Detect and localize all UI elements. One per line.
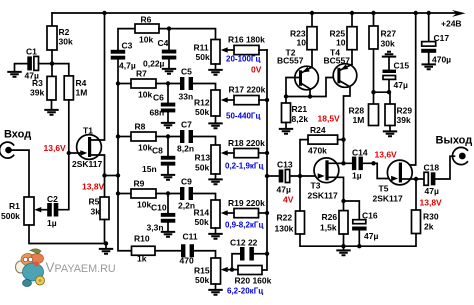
svg-text:Вход: Вход [4, 129, 31, 141]
svg-text:0,9-8,2кГц: 0,9-8,2кГц [225, 221, 263, 230]
capacitor C15 [388, 58, 390, 93]
wire R7 right to C5 [156, 83, 180, 85]
wire R6 right to R11 top [159, 29, 216, 40]
svg-text:R10: R10 [134, 234, 150, 244]
wire C17 to ground [428, 53, 430, 64]
resistor R19 [234, 209, 259, 218]
svg-text:C2: C2 [47, 194, 58, 204]
svg-text:50k: 50k [195, 163, 209, 173]
ground C8 [161, 175, 175, 180]
node row2 [166, 81, 170, 85]
ground bottom [336, 250, 350, 255]
wire C13 right to T3 gate [290, 175, 318, 177]
svg-text:39k: 39k [397, 115, 411, 125]
transistor T3 2SK117 [314, 158, 339, 183]
wire bottom rail [300, 231, 416, 250]
wire R24 right [338, 139, 344, 141]
svg-text:1k: 1k [137, 254, 147, 264]
svg-text:0,2-1,9кГц: 0,2-1,9кГц [225, 162, 263, 171]
capacitor C1 [27, 56, 32, 70]
node gate T1 [67, 151, 71, 155]
wire R23 bottom to T2 emitter [311, 50, 313, 67]
svg-text:R1: R1 [9, 201, 20, 211]
svg-text:0,22µ: 0,22µ [143, 59, 165, 69]
wire node to R4 top [52, 64, 69, 76]
wire T1 drain to rail [91, 13, 105, 140]
ground R14 [208, 234, 222, 239]
capacitor C7 [180, 130, 184, 143]
wire R27 bottom / R28 top [373, 49, 375, 104]
svg-text:20-100Гц: 20-100Гц [226, 55, 260, 64]
resistor R10 [132, 246, 156, 255]
svg-text:R21: R21 [292, 104, 308, 114]
wire R23 top to rail [311, 13, 313, 27]
ground C1 [7, 72, 21, 77]
svg-text:47µ: 47µ [394, 80, 408, 90]
wire source node to bus [105, 175, 119, 177]
node R2/R3/C1/R4 [50, 61, 54, 65]
wire bus to C13 [267, 175, 279, 177]
svg-text:R19 220k: R19 220k [228, 198, 265, 208]
svg-text:C15: C15 [394, 61, 410, 71]
ground R11 [208, 70, 222, 75]
capacitor C18 [416, 178, 424, 180]
resistor R9 [118, 193, 131, 195]
ground R1/R5 [99, 249, 113, 254]
svg-text:470µ: 470µ [432, 55, 451, 65]
wire +24V rail [52, 12, 460, 14]
transistor T2 BC557 [295, 66, 319, 90]
svg-text:R12: R12 [194, 98, 210, 108]
potentiometer R14 [211, 200, 220, 228]
svg-text:0V: 0V [251, 65, 262, 75]
wire C11 right to R15 top [194, 251, 216, 258]
capacitor C14 [352, 157, 356, 171]
svg-text:C6: C6 [153, 93, 164, 103]
wire R15 ground [215, 284, 217, 289]
svg-text:10k: 10k [138, 90, 152, 100]
svg-text:R4: R4 [76, 78, 87, 88]
svg-text:R9: R9 [134, 179, 145, 189]
resistor R20 [238, 266, 262, 275]
capacitor C17 [422, 42, 436, 47]
svg-text:R13: R13 [195, 153, 211, 163]
resistor R8 [118, 136, 131, 138]
svg-text:C7: C7 [181, 120, 192, 130]
wire R19 right to bus [259, 212, 268, 214]
ground R13 [208, 179, 222, 184]
node T5 drain rail [414, 11, 418, 15]
svg-text:R18 220k: R18 220k [228, 138, 265, 148]
svg-text:1,5k: 1,5k [320, 223, 337, 233]
ground C17 [422, 64, 436, 69]
wire C1 left to ground [15, 64, 28, 71]
wire R24 left to gate node [300, 140, 308, 211]
svg-text:R29: R29 [397, 106, 413, 116]
capacitor C2 [47, 203, 52, 217]
node row1 [167, 26, 171, 30]
ground C15 inverted [382, 52, 396, 57]
svg-text:R22: R22 [277, 213, 293, 223]
resistor R29 [385, 104, 395, 126]
wire C14 right to T5 gate [363, 163, 391, 178]
wire R19 wiper arrow [227, 212, 234, 214]
svg-text:10k: 10k [138, 143, 152, 153]
svg-text:33n: 33n [179, 92, 194, 102]
wire R21 ground [285, 123, 287, 129]
wire C12 left to R20 left and wiper arrow [227, 254, 240, 270]
wire node to R29 top [374, 92, 391, 104]
svg-text:C10: C10 [151, 203, 167, 213]
svg-text:R5: R5 [89, 197, 100, 207]
svg-text:R14: R14 [194, 208, 210, 218]
wire R3 bottom to ground [51, 100, 53, 109]
wire C12 right to bus [254, 253, 267, 255]
wire R29 ground [389, 126, 391, 131]
wire source bus vertical [118, 60, 132, 251]
node bus R8 [116, 134, 120, 138]
wire source node to C16 [344, 201, 360, 220]
capacitor C11 [181, 244, 185, 257]
svg-text:BC557: BC557 [324, 56, 351, 66]
svg-text:C1: C1 [26, 47, 37, 57]
svg-text:2k: 2k [424, 222, 434, 232]
wire R8 right to C7 [156, 136, 180, 138]
svg-text:470: 470 [180, 256, 194, 266]
svg-text:Выход: Выход [436, 135, 473, 147]
wire R17 wiper arrow [227, 99, 234, 101]
wire R11 to ground [215, 64, 217, 69]
wire T3 source down [328, 177, 343, 201]
wire R2 bottom to R3 top [51, 50, 53, 76]
wire C18 to output [435, 156, 454, 179]
resistor R5 [104, 176, 106, 198]
watermark logo [16, 249, 45, 287]
svg-text:18,5V: 18,5V [318, 114, 341, 124]
ground R3 [44, 110, 58, 115]
svg-text:C12 22: C12 22 [230, 238, 258, 248]
svg-text:C13: C13 [277, 160, 293, 170]
capacitor C8 [167, 137, 169, 175]
wire R18 right to bus [259, 152, 268, 154]
wire R4 bottom to gate node [68, 100, 70, 153]
wire 0V bus vertical [262, 50, 267, 270]
node source/R5 [102, 173, 106, 177]
ground C6 [161, 123, 175, 128]
ground C4 [162, 69, 176, 74]
node bus R7 [116, 81, 120, 85]
svg-text:R30: R30 [423, 212, 439, 222]
wire R17 right to bus [259, 99, 267, 101]
+24V arrow [452, 10, 466, 17]
svg-text:50k: 50k [195, 107, 209, 117]
ground R12 [208, 123, 222, 128]
svg-text:C9: C9 [181, 177, 192, 187]
svg-text:T5: T5 [379, 184, 389, 194]
wire R25 bottom to T4 emitter [351, 50, 353, 65]
svg-text:470k: 470k [308, 146, 327, 156]
svg-text:R6: R6 [141, 15, 152, 25]
svg-text:VPAYAEM.RU: VPAYAEM.RU [46, 260, 116, 275]
wire mirror line to T4 base [286, 78, 337, 97]
potentiometer R15 [211, 258, 221, 284]
capacitor C13 [279, 170, 284, 183]
wire gate node down to C2 [58, 153, 69, 210]
wire T5 drain to rail [402, 13, 416, 165]
resistor R16 [234, 45, 259, 54]
capacitor C16 [353, 220, 366, 224]
input connector [0, 142, 14, 158]
svg-text:R24: R24 [310, 125, 326, 135]
wire R16 right to 0V bus [259, 49, 267, 51]
resistor R28 [369, 104, 379, 126]
svg-text:50k: 50k [195, 275, 209, 285]
svg-text:R8: R8 [135, 122, 146, 132]
resistor R4 [64, 76, 73, 100]
capacitor C12 [240, 247, 245, 261]
svg-text:13,8V: 13,8V [82, 182, 105, 192]
svg-text:47µ: 47µ [277, 185, 291, 195]
wire T5 source [402, 178, 416, 180]
resistor R17 [234, 96, 259, 105]
svg-text:C16: C16 [362, 211, 378, 221]
svg-text:R2: R2 [59, 27, 70, 37]
resistor R6 [135, 24, 159, 33]
ground R15 [208, 290, 222, 295]
resistor R30 [415, 179, 417, 210]
transistor T1 2SK117 [77, 135, 102, 160]
svg-text:13,6V: 13,6V [44, 143, 67, 153]
svg-text:4V: 4V [283, 195, 294, 205]
node rail/T1 drain [102, 11, 106, 15]
svg-text:C17: C17 [434, 33, 450, 43]
potentiometer R12 [211, 90, 220, 116]
svg-text:R28: R28 [349, 106, 365, 116]
svg-text:3k: 3k [91, 207, 101, 217]
svg-text:10k: 10k [139, 35, 153, 45]
node bus R9 [116, 191, 120, 195]
resistor R23 [307, 27, 317, 50]
svg-text:R16 180k: R16 180k [228, 35, 265, 45]
svg-text:C18: C18 [424, 163, 440, 173]
wire C1 right to node [39, 63, 53, 65]
wire R5 bottom / R1 bottom to ground [29, 220, 106, 249]
wire R14 ground [215, 228, 217, 233]
capacitor C10 [167, 194, 169, 232]
ground R29 [383, 131, 397, 136]
ground C10 [161, 232, 175, 237]
svg-text:10: 10 [297, 38, 307, 48]
potentiometer R1 [24, 197, 34, 225]
resistor R3 [47, 76, 56, 100]
svg-text:C14: C14 [352, 148, 368, 158]
svg-text:C5: C5 [181, 67, 192, 77]
svg-text:50k: 50k [196, 52, 210, 62]
wire T2 base [286, 78, 299, 97]
resistor R27 [369, 26, 378, 49]
svg-text:50-440Гц: 50-440Гц [226, 112, 260, 121]
wire T3 drain to C14 [328, 162, 352, 164]
svg-text:C3: C3 [122, 41, 133, 51]
resistor R25 [347, 27, 357, 50]
wire R27 top to rail [373, 13, 375, 26]
capacitor C9 [180, 187, 184, 200]
potentiometer R13 [211, 145, 220, 174]
resistor R24 [308, 135, 338, 144]
svg-text:C11: C11 [183, 232, 198, 242]
capacitor C4 [168, 29, 170, 68]
capacitor C3 [111, 50, 126, 54]
resistor R7 [118, 83, 131, 85]
node R24 right [341, 137, 345, 141]
svg-text:39k: 39k [30, 88, 44, 98]
svg-text:2SK117: 2SK117 [308, 191, 339, 201]
svg-text:13,6V: 13,6V [375, 150, 398, 160]
svg-text:6,2-20кГц: 6,2-20кГц [227, 287, 263, 296]
svg-text:C4: C4 [158, 38, 169, 48]
svg-text:30k: 30k [59, 37, 73, 47]
wire R13 ground [215, 174, 217, 179]
capacitor C5 [180, 77, 184, 90]
resistor R18 [234, 149, 259, 158]
node row3 [166, 134, 170, 138]
resistor R26 [343, 201, 345, 211]
svg-text:1µ: 1µ [352, 171, 362, 181]
svg-text:2,2n: 2,2n [178, 201, 195, 211]
node row4 [166, 191, 170, 195]
svg-text:2SK117: 2SK117 [72, 159, 103, 169]
svg-text:500k: 500k [1, 211, 20, 221]
svg-text:15n: 15n [142, 164, 157, 174]
svg-text:T3: T3 [311, 181, 321, 191]
resistor R2 [47, 26, 57, 50]
svg-text:10k: 10k [137, 200, 151, 210]
svg-text:50k: 50k [195, 217, 209, 227]
wire R1 wiper to C2 [41, 209, 48, 211]
svg-text:4,7µ: 4,7µ [119, 61, 136, 71]
output connector [452, 147, 467, 164]
wire C9 right to R14 top [193, 194, 216, 201]
svg-text:47µ: 47µ [425, 186, 439, 196]
transistor T4 BC557 [333, 64, 357, 88]
svg-text:R17 220k: R17 220k [229, 85, 266, 95]
wire R6 left / C3 top [118, 29, 135, 50]
wire R12 ground [215, 116, 217, 123]
resistor R22 [296, 211, 305, 234]
svg-text:10: 10 [336, 38, 346, 48]
ground R21 [279, 129, 293, 134]
svg-text:1M: 1M [76, 88, 88, 98]
svg-text:C8: C8 [152, 146, 163, 156]
svg-text:8,2n: 8,2n [177, 144, 194, 154]
svg-text:130k: 130k [275, 224, 294, 234]
svg-text:BC557: BC557 [277, 56, 304, 66]
svg-text:8,2k: 8,2k [292, 114, 309, 124]
capacitor C6 [167, 84, 169, 123]
wire C17 top to rail [428, 13, 430, 42]
wire R2 top to rail [51, 13, 53, 26]
svg-text:68n: 68n [150, 108, 165, 118]
wire R10 right to C11 [155, 250, 181, 252]
svg-text:1M: 1M [353, 115, 365, 125]
wire C5 right to R12 top [193, 84, 216, 91]
svg-text:R27: R27 [381, 29, 397, 39]
transistor T5 2SK117 [387, 160, 412, 185]
wire C7 right to R13 top [193, 137, 216, 146]
svg-text:1µ: 1µ [47, 218, 57, 228]
svg-text:30k: 30k [381, 39, 395, 49]
svg-text:T1: T1 [83, 126, 93, 136]
svg-text:2SK117: 2SK117 [373, 194, 404, 204]
wire T1 source down [91, 155, 105, 176]
node bus source [116, 173, 120, 177]
svg-text:47µ: 47µ [364, 231, 378, 241]
svg-text:+24В: +24В [441, 19, 462, 29]
svg-text:13,8V: 13,8V [420, 198, 443, 208]
svg-text:R26: R26 [322, 212, 338, 222]
wire R25 top to rail [351, 13, 353, 27]
wire R16 wiper arrow [227, 49, 234, 51]
wire R18 wiper arrow [227, 152, 234, 154]
resistor R21 [285, 97, 287, 104]
svg-text:R15: R15 [194, 266, 210, 276]
wire input to R1 [10, 150, 29, 197]
svg-text:R7: R7 [136, 69, 147, 79]
svg-text:R11: R11 [194, 43, 209, 53]
potentiometer R11 [211, 40, 220, 65]
svg-text:R20 160k: R20 160k [235, 276, 272, 286]
wire R9 right to C9 [156, 193, 180, 195]
svg-text:R3: R3 [32, 78, 43, 88]
